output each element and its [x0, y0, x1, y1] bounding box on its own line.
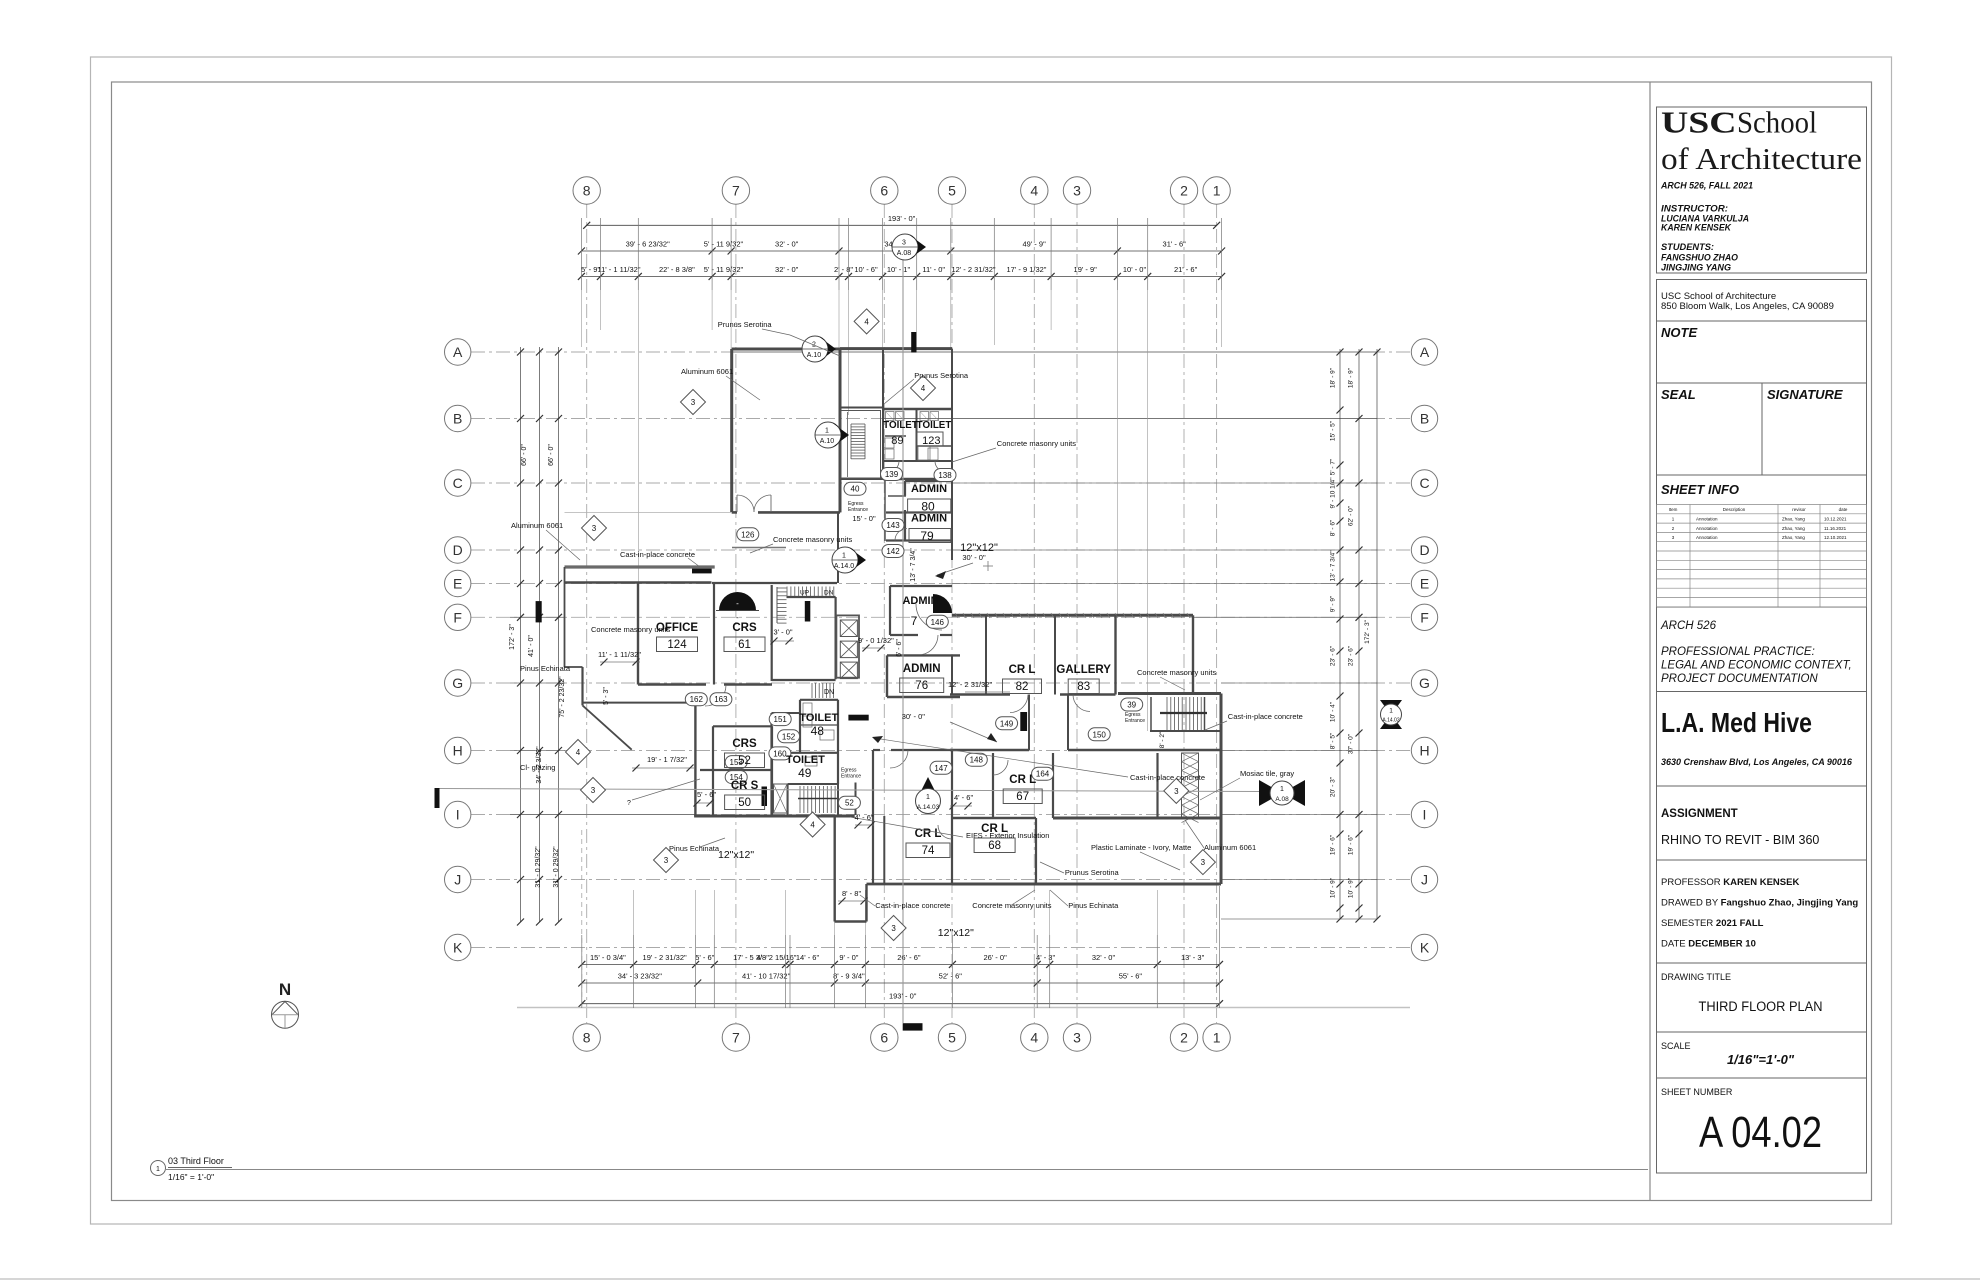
svg-text:49' - 9": 49' - 9"	[1022, 240, 1046, 249]
svg-text:Pinus Echinata: Pinus Echinata	[1068, 901, 1119, 910]
svg-text:7: 7	[732, 1030, 740, 1046]
svg-text:Aluminum 6061: Aluminum 6061	[511, 521, 563, 530]
svg-text:Aluminum 6061: Aluminum 6061	[1204, 843, 1256, 852]
svg-text:8' - 2": 8' - 2"	[1159, 731, 1166, 748]
svg-text:49: 49	[798, 766, 812, 780]
svg-text:193' - 0": 193' - 0"	[888, 214, 916, 223]
svg-text:5' - 6": 5' - 6"	[697, 790, 716, 799]
svg-text:10' - 1": 10' - 1"	[887, 265, 911, 274]
svg-text:SCALE: SCALE	[1661, 1041, 1691, 1051]
svg-text:A.10: A.10	[820, 438, 835, 445]
svg-text:164: 164	[1036, 770, 1050, 779]
svg-text:18' - 9": 18' - 9"	[1330, 367, 1337, 388]
svg-text:148: 148	[970, 756, 984, 765]
svg-text:126: 126	[741, 530, 755, 539]
svg-text:146: 146	[931, 618, 945, 627]
svg-text:10' - 9": 10' - 9"	[1348, 877, 1355, 898]
svg-text:EIFS - Exterior Insulation: EIFS - Exterior Insulation	[966, 831, 1049, 840]
svg-text:10' - 0": 10' - 0"	[1123, 265, 1147, 274]
svg-text:CRS: CRS	[732, 738, 757, 750]
svg-text:8: 8	[583, 1030, 591, 1046]
svg-text:8' - 5": 8' - 5"	[1330, 732, 1337, 749]
svg-text:D: D	[1419, 542, 1429, 558]
svg-text:SHEET NUMBER: SHEET NUMBER	[1661, 1087, 1733, 1097]
svg-text:8' - 9 3/4": 8' - 9 3/4"	[833, 972, 865, 981]
svg-text:K: K	[1420, 940, 1430, 956]
svg-text:9' - 10 1/4": 9' - 10 1/4"	[1330, 477, 1337, 509]
svg-text:12' - 2 31/32": 12' - 2 31/32"	[951, 265, 995, 274]
svg-text:4' - 6": 4' - 6"	[854, 813, 873, 822]
svg-text:CR L: CR L	[1009, 774, 1036, 786]
svg-text:J: J	[454, 872, 461, 888]
svg-text:PROFESSIONAL PRACTICE:: PROFESSIONAL PRACTICE:	[1661, 646, 1815, 658]
svg-text:1/16" = 1'-0": 1/16" = 1'-0"	[168, 1172, 214, 1182]
svg-text:10' - 9": 10' - 9"	[1330, 877, 1337, 898]
svg-text:CR L: CR L	[1009, 664, 1036, 676]
svg-text:13' - 7 3/4": 13' - 7 3/4"	[910, 548, 917, 582]
svg-text:15' - 0": 15' - 0"	[852, 514, 876, 523]
svg-text:3' - 0": 3' - 0"	[773, 628, 792, 637]
svg-text:31' - 0 29/32": 31' - 0 29/32"	[553, 846, 560, 888]
svg-text:19' - 2 31/32": 19' - 2 31/32"	[643, 953, 687, 962]
svg-text:10' - 4": 10' - 4"	[1330, 701, 1337, 722]
svg-text:DRAWING TITLE: DRAWING TITLE	[1661, 972, 1731, 982]
svg-text:32' - 0": 32' - 0"	[775, 265, 799, 274]
svg-text:12.10.2021: 12.10.2021	[1824, 535, 1847, 540]
svg-text:11' - 1 11/32": 11' - 1 11/32"	[598, 650, 641, 659]
svg-text:11' - 0": 11' - 0"	[922, 265, 945, 274]
svg-text:A.10: A.10	[807, 352, 822, 359]
svg-text:151: 151	[774, 715, 788, 724]
svg-text:79: 79	[920, 529, 934, 543]
svg-text:N: N	[279, 980, 291, 999]
svg-text:139: 139	[885, 470, 899, 479]
svg-text:PROFESSOR KAREN KENSEK: PROFESSOR KAREN KENSEK	[1661, 877, 1799, 888]
svg-text:Annotation: Annotation	[1696, 535, 1718, 540]
svg-text:3: 3	[1073, 1030, 1081, 1046]
svg-text:37' - 0": 37' - 0"	[1348, 733, 1355, 754]
svg-text:Aluminum 6061: Aluminum 6061	[681, 367, 733, 376]
svg-text:SEAL: SEAL	[1661, 387, 1696, 402]
svg-text:INSTRUCTOR:: INSTRUCTOR:	[1661, 204, 1728, 214]
svg-text:DRAWED BY Fangshuo Zhao, Jingj: DRAWED BY Fangshuo Zhao, Jingjing Yang	[1661, 898, 1858, 909]
svg-text:Concrete masonry units: Concrete masonry units	[972, 901, 1051, 910]
svg-text:8' - 8": 8' - 8"	[842, 889, 861, 898]
svg-text:10' - 6": 10' - 6"	[854, 265, 878, 274]
svg-text:172' - 3": 172' - 3"	[509, 624, 516, 650]
svg-text:1/16"=1'-0": 1/16"=1'-0"	[1727, 1052, 1795, 1067]
svg-text:52: 52	[845, 799, 854, 808]
svg-text:8' - 6": 8' - 6"	[1330, 519, 1337, 536]
svg-text:11' - 1 11/32": 11' - 1 11/32"	[597, 265, 640, 274]
svg-text:26' - 6": 26' - 6"	[897, 953, 921, 962]
svg-text:52' - 6": 52' - 6"	[939, 972, 963, 981]
svg-text:A.08: A.08	[897, 250, 912, 257]
svg-text:TOILET: TOILET	[799, 712, 838, 724]
svg-text:18' - 9": 18' - 9"	[1348, 367, 1355, 388]
svg-text:DN: DN	[824, 689, 834, 696]
svg-text:15' - 5": 15' - 5"	[1330, 420, 1337, 441]
svg-text:67: 67	[1016, 791, 1029, 803]
svg-text:ARCH 526: ARCH 526	[1660, 620, 1717, 632]
svg-text:19' - 6": 19' - 6"	[1330, 834, 1337, 855]
svg-text:40: 40	[851, 485, 860, 494]
svg-text:149: 149	[1000, 719, 1014, 728]
svg-text:82: 82	[1016, 681, 1029, 693]
svg-text:I: I	[456, 807, 460, 823]
svg-text:74: 74	[922, 845, 935, 857]
svg-text:ARCH 526, FALL 2021: ARCH 526, FALL 2021	[1660, 181, 1753, 191]
svg-text:1: 1	[1280, 786, 1284, 793]
svg-text:TOILET: TOILET	[883, 420, 918, 431]
svg-text:Entrance: Entrance	[848, 507, 868, 513]
svg-text:31' - 0 29/32": 31' - 0 29/32"	[535, 846, 542, 888]
svg-text:Entrance: Entrance	[841, 774, 861, 780]
svg-text:Pinus Echinata: Pinus Echinata	[669, 844, 720, 853]
svg-text:30' - 0": 30' - 0"	[902, 712, 926, 721]
svg-text:Zhao, Yang: Zhao, Yang	[1782, 526, 1805, 531]
svg-text:Cast-in-place concrete: Cast-in-place concrete	[875, 901, 950, 910]
svg-text:5' - 3": 5' - 3"	[603, 687, 610, 705]
svg-text:34' - 3 23/32": 34' - 3 23/32"	[618, 972, 662, 981]
svg-text:4' - 3": 4' - 3"	[1036, 953, 1055, 962]
svg-text:50: 50	[738, 797, 751, 809]
svg-text:ADMIN: ADMIN	[911, 513, 947, 525]
svg-text:3: 3	[1201, 858, 1206, 867]
svg-text:Cl- glazing: Cl- glazing	[520, 763, 555, 772]
svg-text:LEGAL AND ECONOMIC CONTEXT,: LEGAL AND ECONOMIC CONTEXT,	[1661, 660, 1852, 672]
svg-text:K: K	[453, 940, 463, 956]
svg-text:39: 39	[1127, 701, 1136, 710]
svg-text:ASSIGNMENT: ASSIGNMENT	[1661, 808, 1738, 820]
svg-text:5' - 11 9/32": 5' - 11 9/32"	[704, 265, 744, 274]
svg-text:5' - 11 9/32": 5' - 11 9/32"	[704, 240, 744, 249]
svg-text:850 Bloom Walk, Los Angeles, C: 850 Bloom Walk, Los Angeles, CA 90089	[1661, 301, 1834, 312]
svg-text:6: 6	[880, 1030, 888, 1046]
svg-text:123: 123	[922, 435, 940, 447]
svg-text:1: 1	[1213, 1030, 1221, 1046]
svg-text:4: 4	[576, 748, 581, 757]
svg-text:4: 4	[810, 821, 815, 830]
svg-text:PROJECT DOCUMENTATION: PROJECT DOCUMENTATION	[1661, 673, 1818, 685]
svg-text:142: 142	[886, 547, 900, 556]
svg-text:3: 3	[664, 856, 669, 865]
svg-text:JINGJING YANG: JINGJING YANG	[1661, 263, 1731, 273]
svg-text:6: 6	[880, 183, 888, 199]
svg-text:83: 83	[1077, 681, 1090, 693]
svg-text:11.16.2021: 11.16.2021	[1824, 526, 1847, 531]
svg-text:55' - 6": 55' - 6"	[1119, 972, 1143, 981]
svg-text:12' - 2 31/32": 12' - 2 31/32"	[948, 680, 992, 689]
svg-text:10.12.2021: 10.12.2021	[1824, 517, 1847, 522]
svg-text:17' - 9 1/32": 17' - 9 1/32"	[1007, 265, 1047, 274]
svg-text:Annotation: Annotation	[1696, 517, 1718, 522]
svg-text:UP: UP	[800, 590, 809, 597]
svg-text:of Architecture: of Architecture	[1661, 141, 1862, 176]
svg-text:CR S: CR S	[731, 780, 759, 792]
svg-text:3: 3	[592, 524, 597, 533]
svg-text:7: 7	[911, 614, 918, 628]
svg-text:School: School	[1737, 105, 1817, 140]
svg-text:I: I	[1423, 807, 1427, 823]
svg-text:2: 2	[1180, 1030, 1188, 1046]
svg-text:9' - 9": 9' - 9"	[1330, 595, 1337, 612]
svg-text:03 Third Floor: 03 Third Floor	[168, 1156, 224, 1166]
svg-text:163: 163	[714, 695, 728, 704]
svg-text:3: 3	[902, 240, 906, 247]
svg-text:12"x12": 12"x12"	[718, 849, 754, 861]
svg-text:3: 3	[891, 924, 896, 933]
svg-text:H: H	[1419, 743, 1429, 759]
svg-text:68: 68	[988, 840, 1001, 852]
svg-text:G: G	[1419, 675, 1430, 691]
svg-text:Prunus Serotina: Prunus Serotina	[718, 320, 773, 329]
svg-text:75' - 2 23/32": 75' - 2 23/32"	[559, 676, 566, 718]
svg-text:124: 124	[667, 639, 687, 651]
svg-text:DN: DN	[824, 590, 834, 597]
svg-text:TOILET: TOILET	[786, 754, 825, 766]
svg-text:4: 4	[864, 317, 869, 326]
svg-text:62' - 0": 62' - 0"	[1348, 505, 1355, 526]
svg-text:152: 152	[782, 732, 796, 741]
svg-text:4' - 6": 4' - 6"	[954, 793, 973, 802]
svg-text:F: F	[453, 609, 462, 625]
svg-text:23' - 6": 23' - 6"	[1348, 645, 1355, 666]
svg-text:E: E	[1420, 576, 1429, 592]
svg-text:19' - 1 7/32": 19' - 1 7/32"	[647, 755, 687, 764]
svg-text:2' - 8": 2' - 8"	[834, 265, 853, 274]
svg-text:Prunus Serotina: Prunus Serotina	[1065, 868, 1120, 877]
svg-text:Entrance: Entrance	[1125, 718, 1145, 724]
svg-text:138: 138	[938, 471, 952, 480]
svg-text:date: date	[1839, 507, 1848, 512]
svg-text:4: 4	[921, 384, 926, 393]
svg-text:E: E	[453, 576, 462, 592]
svg-text:39' - 6 23/32": 39' - 6 23/32"	[626, 240, 670, 249]
svg-text:SEMESTER 2021 FALL: SEMESTER 2021 FALL	[1661, 918, 1764, 929]
svg-text:4' - 2 15/16": 4' - 2 15/16"	[757, 953, 797, 962]
svg-text:Annotation: Annotation	[1696, 526, 1718, 531]
svg-text:1: 1	[156, 1166, 160, 1173]
svg-text:8: 8	[583, 183, 591, 199]
svg-text:14' - 6": 14' - 6"	[796, 953, 820, 962]
svg-text:19' - 6": 19' - 6"	[1348, 834, 1355, 855]
svg-text:A: A	[453, 344, 463, 360]
svg-text:3: 3	[1073, 183, 1081, 199]
svg-text:SIGNATURE: SIGNATURE	[1767, 387, 1843, 402]
svg-text:13' - 7 3/4": 13' - 7 3/4"	[1330, 550, 1337, 582]
svg-text:15' - 0 3/4": 15' - 0 3/4"	[590, 953, 626, 962]
svg-text:A: A	[1420, 344, 1430, 360]
svg-text:147: 147	[934, 764, 948, 773]
svg-text:66' - 0": 66' - 0"	[548, 444, 555, 466]
svg-text:F: F	[1420, 609, 1429, 625]
svg-text:G: G	[452, 675, 463, 691]
svg-text:SHEET INFO: SHEET INFO	[1661, 482, 1739, 497]
svg-text:12"x12": 12"x12"	[938, 927, 974, 939]
svg-text:7: 7	[732, 183, 740, 199]
svg-text:USC: USC	[1661, 105, 1737, 140]
svg-text:Concrete masonry units: Concrete masonry units	[773, 535, 852, 544]
svg-text:41' - 0": 41' - 0"	[528, 635, 535, 657]
svg-text:1: 1	[1389, 708, 1393, 715]
svg-text:1: 1	[842, 553, 846, 560]
svg-text:THIRD FLOOR PLAN: THIRD FLOOR PLAN	[1699, 999, 1823, 1014]
svg-text:-: -	[736, 599, 739, 608]
svg-text:CRS: CRS	[732, 622, 757, 634]
svg-text:A.14.0: A.14.0	[834, 563, 854, 570]
svg-text:ADMIN: ADMIN	[911, 483, 947, 495]
svg-text:6' - 6": 6' - 6"	[896, 639, 903, 657]
svg-text:-: -	[736, 613, 739, 622]
svg-text:5' - 7": 5' - 7"	[1330, 458, 1337, 475]
svg-text:1: 1	[1213, 183, 1221, 199]
svg-text:A.14.02: A.14.02	[1382, 718, 1399, 724]
svg-text:ADMIN: ADMIN	[903, 663, 941, 675]
svg-text:2: 2	[1180, 183, 1188, 199]
svg-text:Concrete masonry units: Concrete masonry units	[1137, 668, 1216, 677]
svg-text:3630 Crenshaw Blvd, Los Angele: 3630 Crenshaw Blvd, Los Angeles, CA 9001…	[1661, 757, 1853, 767]
svg-text:Cast-in-place concrete: Cast-in-place concrete	[1130, 773, 1205, 782]
svg-text:Plastic Laminate - Ivory, Matt: Plastic Laminate - Ivory, Matte	[1091, 843, 1191, 852]
svg-text:TOILET: TOILET	[917, 420, 952, 431]
svg-text:CR L: CR L	[915, 828, 942, 840]
svg-text:4: 4	[1030, 1030, 1038, 1046]
svg-text:A 04.02: A 04.02	[1699, 1108, 1822, 1157]
svg-text:Zhao, Yang: Zhao, Yang	[1782, 535, 1805, 540]
svg-text:RHINO TO REVIT - BIM 360: RHINO TO REVIT - BIM 360	[1661, 833, 1819, 847]
svg-text:52: 52	[738, 755, 751, 767]
svg-text:150: 150	[1093, 730, 1107, 739]
svg-text:5: 5	[948, 1030, 956, 1046]
svg-text:172' - 3": 172' - 3"	[1364, 619, 1371, 643]
svg-text:Pinus Echinata: Pinus Echinata	[520, 664, 571, 673]
svg-text:C: C	[453, 475, 463, 491]
svg-text:5: 5	[948, 183, 956, 199]
svg-text:Mosiac tile, gray: Mosiac tile, gray	[1240, 769, 1294, 778]
svg-text:B: B	[1420, 411, 1429, 427]
svg-text:20' - 3": 20' - 3"	[1330, 776, 1337, 797]
svg-text:STUDENTS:: STUDENTS:	[1661, 242, 1714, 252]
svg-text:GALLERY: GALLERY	[1056, 664, 1111, 676]
svg-text:A.14.03: A.14.03	[917, 804, 940, 811]
svg-text:61: 61	[738, 639, 751, 651]
svg-text:Concrete masonry units: Concrete masonry units	[997, 439, 1076, 448]
svg-text:9' - 0 1/32": 9' - 0 1/32"	[858, 636, 894, 645]
svg-text:ADMIN: ADMIN	[902, 595, 938, 607]
svg-text:32' - 0": 32' - 0"	[1092, 953, 1116, 962]
svg-text:48: 48	[811, 724, 825, 738]
svg-text:Cast-in-place concrete: Cast-in-place concrete	[620, 550, 695, 559]
svg-text:66' - 0": 66' - 0"	[521, 444, 528, 466]
svg-text:30' - 0": 30' - 0"	[962, 553, 986, 562]
svg-text:21' - 6": 21' - 6"	[1174, 265, 1198, 274]
svg-text:3: 3	[1174, 787, 1179, 796]
svg-text:26' - 0": 26' - 0"	[983, 953, 1007, 962]
svg-text:4: 4	[1030, 183, 1038, 199]
svg-text:31' - 6": 31' - 6"	[1163, 240, 1187, 249]
svg-text:DATE DECEMBER 10: DATE DECEMBER 10	[1661, 939, 1756, 950]
svg-text:Concrete masonry units: Concrete masonry units	[591, 625, 670, 634]
svg-text:80: 80	[921, 500, 935, 514]
svg-text:9' - 0": 9' - 0"	[839, 953, 858, 962]
svg-text:D: D	[453, 542, 463, 558]
svg-text:5' - 6": 5' - 6"	[695, 953, 714, 962]
svg-text:FANGSHUO ZHAO: FANGSHUO ZHAO	[1661, 253, 1739, 263]
svg-text:J: J	[1421, 872, 1428, 888]
svg-text:22' - 8 3/8": 22' - 8 3/8"	[659, 265, 695, 274]
svg-text:Cast-in-place concrete: Cast-in-place concrete	[1228, 712, 1303, 721]
svg-text:L.A. Med Hive: L.A. Med Hive	[1661, 707, 1812, 738]
svg-text:Prunus Serotina: Prunus Serotina	[914, 371, 969, 380]
svg-text:1: 1	[825, 428, 829, 435]
svg-text:KAREN KENSEK: KAREN KENSEK	[1661, 223, 1732, 233]
svg-text:B: B	[453, 411, 462, 427]
svg-text:32' - 0": 32' - 0"	[775, 240, 799, 249]
svg-text:revisor: revisor	[1792, 507, 1806, 512]
svg-text:3: 3	[591, 786, 596, 795]
svg-text:C: C	[1419, 475, 1429, 491]
svg-text:3: 3	[691, 398, 696, 407]
svg-text:1: 1	[926, 794, 930, 801]
svg-text:Zhao, Yang: Zhao, Yang	[1782, 517, 1805, 522]
svg-text:NOTE: NOTE	[1661, 325, 1697, 340]
svg-text:A.08: A.08	[1275, 796, 1289, 803]
svg-text:?: ?	[627, 800, 631, 807]
svg-text:143: 143	[886, 521, 900, 530]
svg-text:19' - 9": 19' - 9"	[1074, 265, 1098, 274]
svg-text:Item: Item	[1669, 507, 1678, 512]
svg-text:H: H	[453, 743, 463, 759]
svg-text:23' - 6": 23' - 6"	[1330, 645, 1337, 666]
svg-text:76: 76	[915, 680, 928, 692]
svg-text:13' - 3": 13' - 3"	[1181, 953, 1205, 962]
svg-text:41' - 10 17/32": 41' - 10 17/32"	[742, 972, 791, 981]
svg-text:162: 162	[690, 695, 704, 704]
svg-text:89: 89	[891, 435, 903, 447]
svg-text:Description: Description	[1723, 507, 1746, 512]
